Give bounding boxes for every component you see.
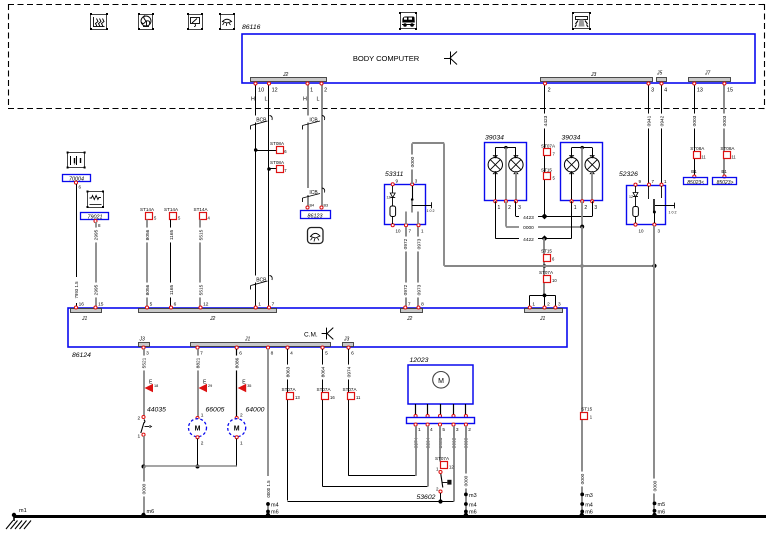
- svg-text:ST08A: ST08A: [270, 141, 285, 146]
- svg-text:ST14A: ST14A: [194, 207, 209, 212]
- svg-text:m6: m6: [147, 509, 155, 515]
- svg-text:6: 6: [174, 302, 177, 308]
- svg-text:3: 3: [594, 205, 597, 211]
- svg-text:85023>: 85023>: [717, 180, 734, 186]
- svg-text:J5: J5: [656, 71, 663, 77]
- svg-text:3: 3: [518, 205, 521, 211]
- svg-text:2: 2: [138, 416, 141, 422]
- svg-text:ST07A: ST07A: [541, 144, 556, 149]
- svg-text:39034: 39034: [562, 135, 581, 142]
- svg-text:C.M.: C.M.: [304, 332, 318, 339]
- svg-text:3: 3: [558, 302, 561, 308]
- svg-text:ST07A: ST07A: [317, 387, 332, 392]
- svg-text:2995: 2995: [93, 229, 99, 240]
- svg-text:0000 1.5: 0000 1.5: [266, 480, 271, 498]
- svg-text:5521: 5521: [141, 357, 147, 368]
- svg-text:0003: 0003: [692, 115, 698, 126]
- svg-text:2: 2: [324, 88, 327, 94]
- svg-text:86123: 86123: [308, 213, 323, 219]
- svg-text:16: 16: [330, 395, 335, 400]
- svg-text:1: 1: [240, 441, 243, 447]
- svg-text:m4: m4: [271, 503, 279, 509]
- svg-text:2: 2: [547, 302, 550, 308]
- svg-text:44035: 44035: [147, 407, 166, 414]
- svg-text:m6: m6: [271, 509, 279, 515]
- svg-text:0973: 0973: [416, 238, 422, 249]
- svg-text:J2: J2: [282, 72, 289, 78]
- svg-text:J3: J3: [139, 337, 146, 343]
- svg-text:3: 3: [651, 88, 654, 94]
- svg-text:0000: 0000: [580, 473, 586, 484]
- svg-text:86116: 86116: [242, 24, 261, 31]
- svg-text:1165: 1165: [169, 285, 175, 296]
- svg-text:ST08A: ST08A: [690, 146, 705, 151]
- svg-text:11: 11: [701, 155, 706, 160]
- svg-text:2: 2: [508, 205, 511, 211]
- svg-text:2: 2: [201, 441, 204, 447]
- svg-text:J1: J1: [81, 316, 88, 322]
- svg-text:13: 13: [697, 88, 703, 94]
- svg-text:2: 2: [548, 88, 551, 94]
- svg-text:8064: 8064: [320, 366, 326, 377]
- svg-text:7: 7: [408, 302, 411, 308]
- svg-text:m1: m1: [19, 508, 27, 514]
- svg-text:8056: 8056: [145, 229, 151, 240]
- svg-text:7: 7: [272, 302, 275, 308]
- svg-text:16: 16: [79, 302, 85, 308]
- svg-text:6: 6: [351, 351, 354, 357]
- svg-text:4: 4: [290, 351, 293, 357]
- svg-text:1: 1: [310, 88, 313, 94]
- svg-text:L: L: [317, 97, 320, 103]
- svg-text:4: 4: [664, 88, 667, 94]
- svg-text:1: 1: [418, 427, 421, 433]
- svg-text:11: 11: [356, 395, 361, 400]
- svg-text:7993 1.5: 7993 1.5: [74, 281, 79, 299]
- svg-text:2: 2: [468, 427, 471, 433]
- svg-text:0000: 0000: [523, 225, 534, 231]
- svg-text:J7: J7: [704, 71, 711, 77]
- svg-text:ST08A: ST08A: [270, 160, 285, 165]
- svg-text:0000: 0000: [652, 480, 658, 491]
- svg-text:2995: 2995: [93, 284, 99, 295]
- svg-text:1: 1: [258, 302, 261, 308]
- svg-text:5515: 5515: [198, 229, 204, 240]
- svg-text:5: 5: [325, 351, 328, 357]
- svg-text:0972: 0972: [403, 238, 409, 249]
- svg-text:+: +: [74, 162, 77, 167]
- svg-text:1 0 2: 1 0 2: [669, 211, 677, 215]
- svg-text:H: H: [251, 97, 255, 103]
- svg-text:15: 15: [98, 302, 104, 308]
- svg-text:0972: 0972: [403, 284, 409, 295]
- svg-text:66005: 66005: [206, 407, 225, 414]
- svg-text:4423: 4423: [523, 215, 534, 221]
- svg-text:M: M: [195, 426, 201, 433]
- svg-text:ST15: ST15: [581, 407, 592, 412]
- svg-text:m3: m3: [585, 493, 593, 499]
- svg-text:39034: 39034: [485, 135, 504, 142]
- svg-text:1: 1: [574, 205, 577, 211]
- svg-text:0003: 0003: [722, 115, 728, 126]
- svg-text:J3: J3: [590, 72, 597, 78]
- svg-text:5515: 5515: [198, 284, 204, 295]
- svg-text:m5: m5: [658, 502, 666, 508]
- svg-text:12: 12: [449, 465, 454, 470]
- svg-text:0000: 0000: [410, 156, 416, 167]
- svg-text:BODY COMPUTER: BODY COMPUTER: [353, 54, 420, 63]
- svg-text:ST08A: ST08A: [720, 146, 735, 151]
- svg-text:35: 35: [247, 384, 251, 388]
- svg-text:ST14A: ST14A: [140, 207, 155, 212]
- svg-text:0000: 0000: [141, 483, 147, 494]
- svg-text:B4: B4: [310, 204, 315, 208]
- svg-text:ST15: ST15: [541, 168, 552, 173]
- svg-text:m6: m6: [585, 509, 593, 515]
- svg-text:10: 10: [258, 88, 264, 94]
- svg-text:0000: 0000: [464, 475, 470, 486]
- svg-text:L: L: [265, 97, 268, 103]
- svg-text:J3: J3: [343, 337, 350, 343]
- svg-text:m6: m6: [469, 509, 477, 515]
- svg-text:2: 2: [240, 413, 243, 419]
- svg-text:4423: 4423: [543, 115, 549, 126]
- svg-text:85023<: 85023<: [687, 180, 704, 186]
- svg-text:8063: 8063: [285, 366, 291, 377]
- svg-text:ST07A: ST07A: [282, 387, 297, 392]
- svg-text:ST07A: ST07A: [435, 456, 450, 461]
- svg-text:ST07A: ST07A: [343, 387, 358, 392]
- svg-text:8: 8: [421, 302, 424, 308]
- svg-text:B3: B3: [324, 204, 329, 208]
- svg-text:5: 5: [442, 427, 445, 433]
- svg-text:29: 29: [208, 384, 212, 388]
- svg-text:J2: J2: [209, 316, 216, 322]
- svg-text:4: 4: [430, 427, 433, 433]
- svg-text:3: 3: [456, 427, 459, 433]
- svg-text:1: 1: [532, 302, 535, 308]
- svg-text:ST07A: ST07A: [539, 270, 554, 275]
- svg-text:10: 10: [552, 278, 557, 283]
- svg-text:4422: 4422: [523, 237, 534, 243]
- svg-text:1: 1: [498, 205, 501, 211]
- svg-text:0941: 0941: [646, 115, 652, 126]
- svg-text:1: 1: [201, 413, 204, 419]
- svg-text:m4: m4: [585, 503, 593, 509]
- svg-text:J1: J1: [539, 316, 546, 322]
- svg-text:13: 13: [295, 395, 300, 400]
- svg-text:1: 1: [138, 434, 141, 440]
- svg-text:m3: m3: [469, 493, 477, 499]
- svg-text:5: 5: [150, 302, 153, 308]
- svg-text:ST14A: ST14A: [164, 207, 179, 212]
- svg-text:H: H: [303, 97, 307, 103]
- svg-text:12023: 12023: [410, 357, 429, 364]
- svg-text:8086: 8086: [235, 357, 241, 368]
- svg-text:8821: 8821: [195, 357, 201, 368]
- svg-text:J1: J1: [244, 337, 251, 343]
- svg-text:1165: 1165: [169, 230, 175, 241]
- svg-text:86124: 86124: [72, 352, 91, 359]
- svg-text:0942: 0942: [659, 115, 665, 126]
- svg-text:10: 10: [639, 229, 645, 234]
- svg-text:53311: 53311: [385, 171, 404, 178]
- svg-text:ST15: ST15: [541, 249, 552, 254]
- svg-text:M: M: [438, 378, 444, 385]
- svg-text:10: 10: [396, 229, 402, 234]
- svg-text:11: 11: [731, 155, 736, 160]
- svg-text:12: 12: [272, 88, 278, 94]
- svg-text:64000: 64000: [246, 407, 265, 414]
- svg-text:53602: 53602: [417, 494, 436, 501]
- svg-text:0974: 0974: [346, 366, 352, 377]
- svg-text:12: 12: [203, 302, 209, 308]
- svg-text:18: 18: [154, 384, 158, 388]
- svg-text:8: 8: [271, 351, 274, 357]
- svg-text:8056: 8056: [145, 284, 151, 295]
- svg-text:B1: B1: [691, 169, 697, 174]
- svg-text:M: M: [234, 426, 240, 433]
- svg-text:0973: 0973: [416, 284, 422, 295]
- svg-text:m6: m6: [658, 510, 666, 516]
- svg-text:15: 15: [727, 88, 733, 94]
- svg-text:1 0 2: 1 0 2: [427, 209, 435, 213]
- svg-text:52326: 52326: [619, 171, 638, 178]
- svg-text:J2: J2: [406, 316, 413, 322]
- svg-text:m4: m4: [469, 503, 477, 509]
- svg-text:2: 2: [584, 205, 587, 211]
- svg-text:B1: B1: [721, 169, 727, 174]
